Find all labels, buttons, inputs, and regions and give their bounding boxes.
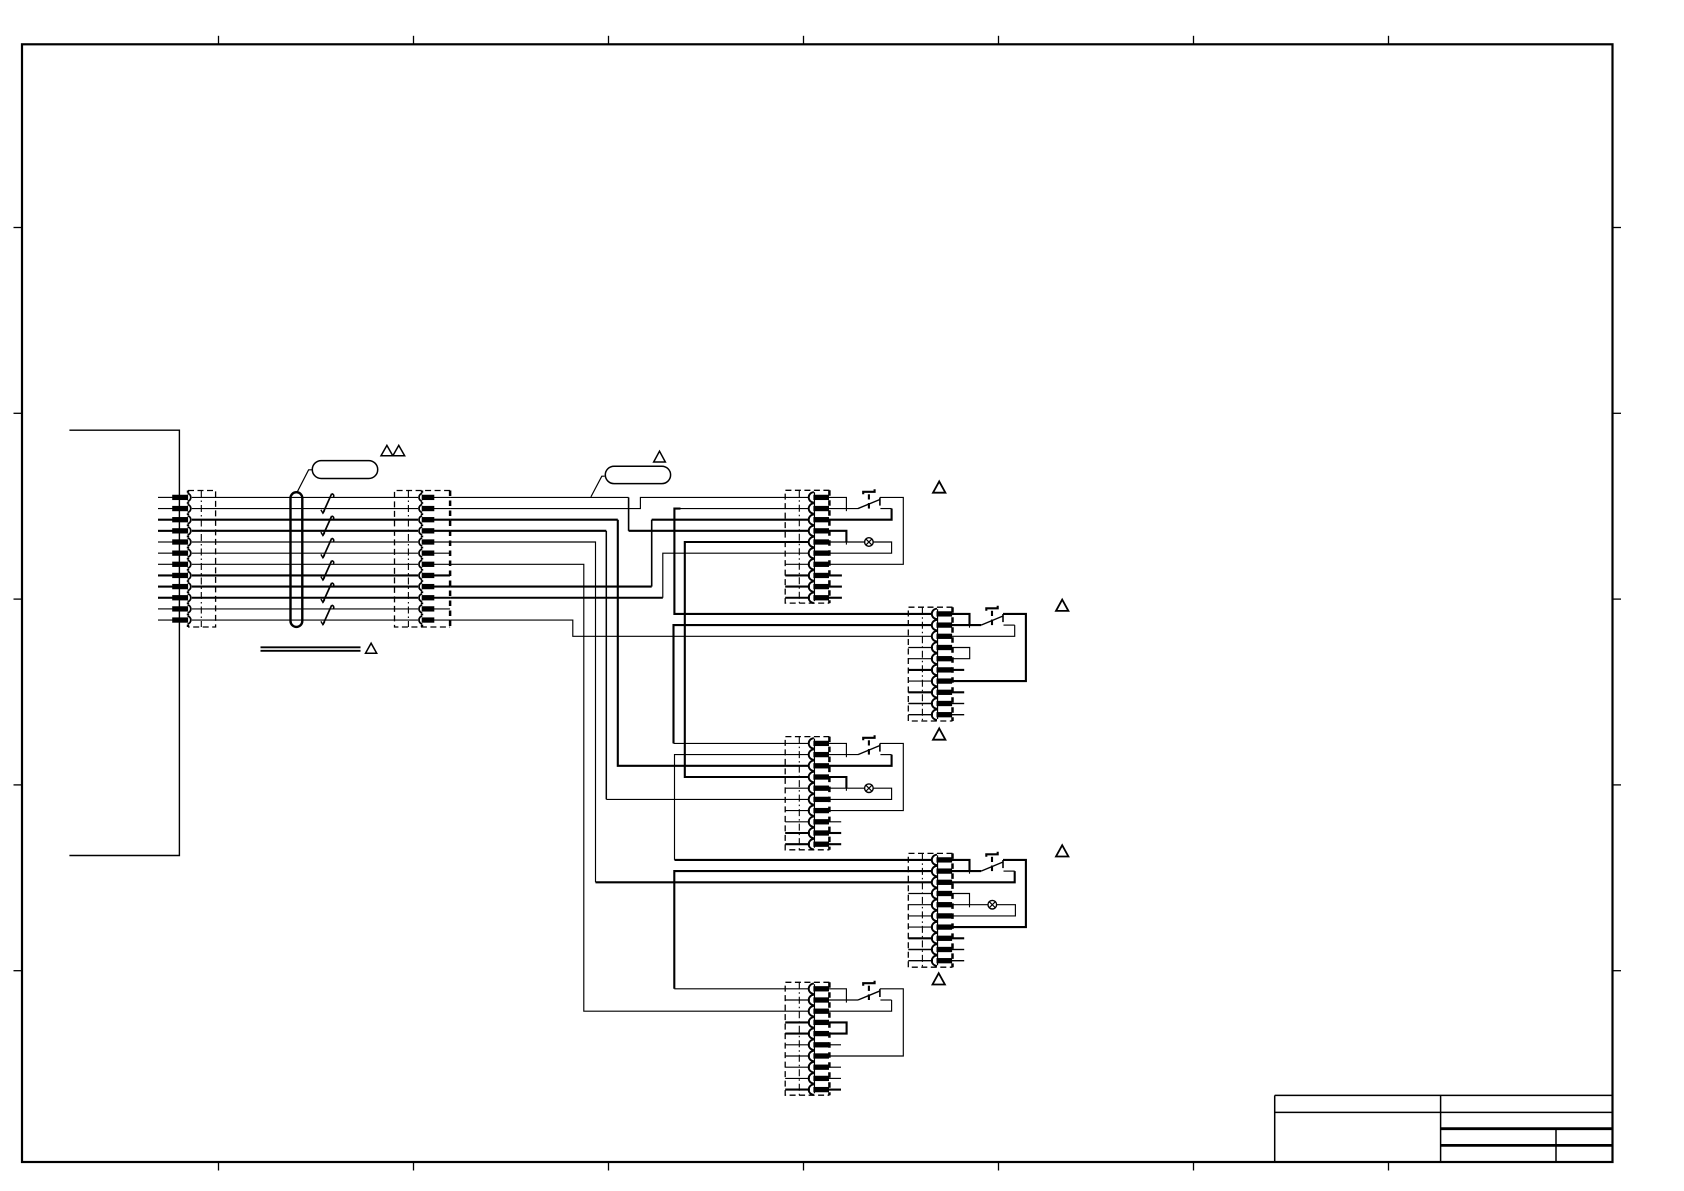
- module E mating line (heavy): [813, 984, 815, 1093]
- connector P2 pin 9 socket bump: [419, 583, 422, 591]
- module D pin 4 crimp: [937, 891, 952, 895]
- connector P1 pin 6 socket bump: [188, 549, 191, 557]
- wire W3 run to module C pin 3: [450, 519, 618, 521]
- module A pin 5 wire to lamp: [829, 541, 865, 543]
- module C junction tick: [845, 788, 847, 791]
- module E pin 1 crimp: [814, 987, 829, 991]
- note triangle module D: [1056, 845, 1068, 856]
- module B switch actuator stem (dashed): [991, 611, 993, 616]
- module B pin 6 capped stub: [952, 669, 965, 671]
- module D pin 7 tail: [908, 926, 933, 928]
- module E switch actuator bar: [863, 981, 874, 986]
- module E pin 10 crimp: [814, 1087, 829, 1091]
- module C pin 2 wire to switch: [829, 754, 859, 756]
- note triangle module C: [933, 728, 945, 739]
- module D switch feed jumper pin1-pin2: [952, 860, 970, 871]
- module E connector housing (dashed): [785, 982, 829, 1095]
- module E pin 6 socket bump: [809, 1040, 814, 1050]
- connector P2 pin 8 crimp: [422, 573, 434, 577]
- note triangle pair near balloon 1: [381, 445, 393, 455]
- module D pin 4 socket bump: [932, 888, 937, 898]
- module B pin 5 crimp: [937, 657, 952, 661]
- module D pin 6 crimp: [937, 914, 952, 918]
- wire pair slash mark 2: [323, 516, 332, 536]
- note triangle module B: [1056, 600, 1068, 611]
- balloon 2 leader line: [591, 476, 605, 497]
- module B pin 10 capped stub: [952, 714, 965, 716]
- module C switch fixed contact: [879, 744, 881, 752]
- module D pin 2 socket bump: [932, 866, 937, 876]
- connector P1 pin 9 crimp: [173, 584, 188, 588]
- module A pin 7 crimp: [814, 562, 829, 566]
- module B pin 4 tail: [908, 647, 933, 649]
- wire W5 run to module D pin 3: [450, 542, 595, 882]
- module A junction tick: [845, 542, 847, 545]
- module B pin 10 socket bump: [932, 710, 937, 720]
- connector P2 pin 12 socket bump: [419, 616, 422, 624]
- module C pin 10 socket bump: [809, 839, 814, 849]
- module B pin 5 tail: [908, 658, 933, 660]
- connector P2 pin 3 socket bump: [419, 516, 422, 524]
- module A pin 3 crimp: [814, 518, 829, 522]
- wire W2 stub from unit to P1 pin 2: [158, 508, 173, 510]
- connector P1 pin 1 crimp: [173, 495, 188, 499]
- module C switch actuator bar: [863, 735, 874, 740]
- module E junction tick: [845, 1000, 847, 1003]
- module D lamp feed jumper pin4-pin5: [952, 894, 970, 905]
- module E pin 4 socket bump: [809, 1017, 814, 1027]
- title block: [1275, 1094, 1613, 1096]
- harness loom tie (capsule): [291, 492, 303, 627]
- wire W9 stub from unit to P1 pin 9: [158, 586, 173, 588]
- module D pin 8 capped stub: [952, 937, 965, 939]
- module C switch output loop to pin 7: [829, 743, 904, 810]
- module A pin 10 capped stub: [829, 597, 842, 599]
- connector P1 pin 6 crimp: [173, 551, 188, 555]
- connector P2 pin 1 socket bump: [419, 493, 422, 501]
- module D pin 9 crimp: [937, 947, 952, 951]
- module B mating line (heavy): [936, 609, 938, 719]
- module B pin 7 tail: [908, 680, 933, 682]
- module D connector cable-side line (heavy dashed): [951, 853, 954, 967]
- module A pin 9 capped stub: [829, 586, 842, 588]
- connector P1 pin 9 socket bump: [188, 583, 191, 591]
- connector P1 pin 7 crimp: [173, 562, 188, 566]
- module B switch feed jumper pin1-pin2: [952, 614, 970, 625]
- module E pin 4 crimp: [814, 1020, 829, 1024]
- module D mating line (heavy): [936, 855, 938, 965]
- module A switch fixed contact: [879, 498, 881, 506]
- module E pin 7 crimp: [814, 1054, 829, 1058]
- module B connector centerline (dash-dot): [921, 607, 923, 721]
- module E pin 3 socket bump: [809, 1006, 814, 1016]
- module D pin 5 wire to lamp: [952, 904, 988, 906]
- module D pin 4 tail: [908, 893, 933, 895]
- module C pin 1 socket bump: [809, 738, 814, 748]
- module D pushbutton switch blade: [981, 862, 1003, 871]
- module B switch fixed contact: [1002, 614, 1004, 622]
- harness wire W2: [192, 508, 418, 510]
- module C mating line (heavy): [813, 739, 815, 848]
- module D pin 9 capped stub: [952, 949, 965, 951]
- module A lamp feed jumper pin4-pin5: [829, 531, 847, 542]
- module C indicator lamp: [865, 784, 874, 793]
- module A pin 8 capped stub: [829, 574, 842, 576]
- wire W2 exit of P2: [434, 508, 450, 510]
- connector P2 pin 4 socket bump: [419, 527, 422, 535]
- wire W12 run to module B pin 3: [450, 620, 933, 636]
- module E pin 3 crimp: [814, 1009, 829, 1013]
- module A pin 10 socket bump: [809, 593, 814, 603]
- module C pin 5 wire to lamp: [829, 787, 865, 789]
- module E pin 1 feed segment (thin): [674, 988, 810, 990]
- connector P2 pin 5 crimp: [422, 540, 434, 544]
- wire pair slash mark 3: [323, 538, 332, 558]
- connector P2 pin 4 crimp: [422, 529, 434, 533]
- connector P2 mating line (heavy, between pins): [421, 491, 423, 493]
- module E pin 2 crimp: [814, 998, 829, 1002]
- module E pin 2 socket bump: [809, 995, 814, 1005]
- wire W5 stub from unit to P1 pin 5: [158, 541, 173, 543]
- module E pin 6 capped stub: [829, 1044, 842, 1046]
- note triangle at double line: [366, 643, 377, 653]
- harness wire W5: [192, 541, 418, 543]
- module A pin 4 crimp: [814, 529, 829, 533]
- module E pin4-pin5 jumper loop: [829, 1022, 847, 1033]
- module D pin 7 crimp: [937, 925, 952, 929]
- module A pin 9 tail: [785, 586, 810, 588]
- wire W11 stub from unit to P1 pin 11: [158, 608, 173, 610]
- module B pin 8 tail: [908, 691, 933, 693]
- note triangle module E: [933, 973, 945, 984]
- module A lamp return loop to pin 6: [829, 542, 892, 553]
- module B switch output loop to pin 7: [952, 614, 1026, 681]
- module D pin 10 capped stub: [952, 960, 965, 962]
- module A connector centerline (dash-dot): [798, 490, 800, 603]
- wire W8 exit of P2: [434, 574, 450, 576]
- module E pin 9 capped stub: [829, 1077, 842, 1079]
- connector J1 housing (dashed): [188, 491, 216, 628]
- wire W7 exit of P2: [434, 563, 450, 565]
- module C pin 6 crimp: [814, 797, 829, 801]
- module B switch actuator bar: [986, 606, 997, 611]
- module B connector housing (dashed): [908, 607, 952, 721]
- note triangle near balloon 2: [654, 451, 666, 462]
- module B pin 4 socket bump: [932, 642, 937, 652]
- wire W11 exit of P2: [434, 608, 450, 610]
- module B pin 7 crimp: [937, 679, 952, 683]
- wire W9 (thick): [450, 586, 652, 588]
- module D switch output loop to pin 7: [952, 860, 1026, 927]
- module C lamp return loop to pin 6: [829, 788, 892, 799]
- module A pin 8 tail: [785, 574, 810, 576]
- callout balloon 2 (empty capsule): [605, 466, 670, 483]
- wire W12 exit of P2: [434, 619, 450, 621]
- module B pin 3 socket bump: [932, 631, 937, 641]
- module C connector housing (dashed): [785, 737, 829, 850]
- connector J1 centerline (dash-dot): [200, 491, 202, 628]
- wire W4 stub from unit to P1 pin 4: [158, 530, 173, 532]
- connector P2 pin 7 crimp: [422, 562, 434, 566]
- module A pin 8 socket bump: [809, 570, 814, 580]
- connector P1 pin 3 socket bump: [188, 516, 191, 524]
- wire W5 exit of P2: [434, 541, 450, 543]
- module C pin 5 socket bump: [809, 783, 814, 793]
- connector P1 pin 11 crimp: [173, 607, 188, 611]
- harness wire W9: [192, 586, 418, 588]
- module C pin 4 crimp: [814, 775, 829, 779]
- module D pin 8 tail: [908, 937, 933, 939]
- module B pin 6 tail: [908, 669, 933, 671]
- module E pin 9 socket bump: [809, 1073, 814, 1083]
- wire W4 exit of P2: [434, 530, 450, 532]
- module A mating line (heavy): [813, 492, 815, 601]
- harness wire W7: [192, 563, 418, 565]
- harness wire W12: [192, 619, 418, 621]
- module A pin 2 wire to switch: [829, 508, 859, 510]
- module C switch actuator stem (dashed): [868, 740, 870, 745]
- module A pin 2 daisy feed down to module B pin 1: [674, 509, 933, 614]
- module D pin 9 socket bump: [932, 944, 937, 954]
- module B pin 10 tail: [908, 714, 933, 716]
- wire W10 (thick): [450, 597, 663, 599]
- module C pin 9 socket bump: [809, 828, 814, 838]
- wire W3 exit of P2: [434, 519, 450, 521]
- wire W6 stub from unit to P1 pin 6: [158, 552, 173, 554]
- harness wire W10: [192, 597, 418, 599]
- module B pin 8 capped stub: [952, 691, 965, 693]
- connector P2 cable-side line (heavy dashed): [449, 491, 452, 628]
- module E pin 7 tail: [785, 1055, 810, 1057]
- connector P2 pin 1 crimp: [422, 495, 434, 499]
- connector P1 pin 5 crimp: [173, 540, 188, 544]
- module D pin 5 crimp: [937, 903, 952, 907]
- module C pin 8 capped stub: [829, 821, 842, 823]
- module A pin 6 lamp return to wire W10: [663, 553, 810, 598]
- module D pin 1 crimp: [937, 858, 952, 862]
- module B pin 9 crimp: [937, 701, 952, 705]
- wire pair slash mark 4: [323, 561, 332, 581]
- wire W1 feed into module A pin 4 (thick): [629, 530, 810, 532]
- module D pin 2 wire to switch: [952, 870, 982, 872]
- module B pin 4 crimp: [937, 645, 952, 649]
- module E pin 2 tail: [785, 999, 810, 1001]
- module C pin 2 socket bump: [809, 749, 814, 759]
- module D pin 10 crimp: [937, 959, 952, 963]
- module E pushbutton switch blade: [858, 991, 880, 1000]
- module E connector cable-side line (heavy dashed): [828, 982, 831, 1095]
- module D pin 5 socket bump: [932, 900, 937, 910]
- module B pin4-pin5 jumper loop: [952, 648, 970, 659]
- module D junction tick: [969, 905, 971, 908]
- harness wire W4: [192, 530, 418, 532]
- connector P1 pin 10 crimp: [173, 596, 188, 600]
- module E switch feed jumper pin1-pin2: [829, 989, 847, 1000]
- module C pin 9 crimp: [814, 831, 829, 835]
- shield/twisted symbol double line: [261, 646, 361, 648]
- module B pin 6 socket bump: [932, 665, 937, 675]
- harness wire W8: [192, 574, 418, 576]
- wire W12 stub from unit to P1 pin 12: [158, 619, 173, 621]
- module A pin 1 crimp: [814, 495, 829, 499]
- module A indicator lamp: [865, 538, 874, 547]
- module A switch actuator bar: [863, 489, 874, 494]
- module B pin 6 crimp: [937, 668, 952, 672]
- module C pin 9 tail: [785, 832, 810, 834]
- module C pin 10 capped stub: [829, 843, 842, 845]
- module D pin 1 socket bump: [932, 855, 937, 865]
- module A pin 7 tail: [785, 563, 810, 565]
- connector P1 pin 2 crimp: [173, 506, 188, 510]
- module D pin 3 socket bump: [932, 877, 937, 887]
- module A pin 7 socket bump: [809, 559, 814, 569]
- module D lamp return loop to pin 6: [952, 905, 1016, 916]
- module E switch fixed contact: [879, 989, 881, 997]
- module B switch output run to pin 3: [1004, 624, 1015, 626]
- module C pin 3 socket bump: [809, 761, 814, 771]
- connector P2 pin 2 socket bump: [419, 505, 422, 513]
- module E pin 5 crimp: [814, 1031, 829, 1035]
- connector P1 pin 4 socket bump: [188, 527, 191, 535]
- connector P1 pin 8 socket bump: [188, 571, 191, 579]
- connector P2 pin 2 crimp: [422, 506, 434, 510]
- left unit block outline: [69, 430, 179, 855]
- connector J2 housing (dashed): [395, 491, 451, 628]
- module C connector centerline (dash-dot): [798, 737, 800, 850]
- module C pin 9 capped stub: [829, 832, 842, 834]
- module C pin 1 feed segment (thin): [674, 742, 811, 744]
- module C pin 7 crimp: [814, 808, 829, 812]
- module A switch feed jumper pin1-pin2: [829, 497, 847, 508]
- module C pin 1 crimp: [814, 741, 829, 745]
- wire W1 stub from unit to P1 pin 1: [158, 496, 173, 498]
- module A pin 5 lamp chain to module C pin 4: [685, 542, 810, 777]
- module A pin 6 socket bump: [809, 548, 814, 558]
- module C connector cable-side line (heavy dashed): [828, 737, 831, 850]
- module D connector housing (dashed): [908, 853, 952, 967]
- module B pin 9 tail: [908, 703, 933, 705]
- connector P2 pin 10 socket bump: [419, 594, 422, 602]
- connector P2 pin 9 crimp: [422, 584, 434, 588]
- module E pin 1 socket bump: [809, 984, 814, 994]
- connector P2 pin 7 socket bump: [419, 560, 422, 568]
- sheet zone tick marks top/bottom: [218, 36, 220, 45]
- harness wire W6: [192, 552, 418, 554]
- module A pin 1 socket bump: [809, 492, 814, 502]
- module B pin 1 socket bump: [932, 609, 937, 619]
- module C pin 2 daisy feed down to module D pin 1: [675, 755, 811, 860]
- connector P1 pin 10 socket bump: [188, 594, 191, 602]
- module E pin 6 crimp: [814, 1043, 829, 1047]
- module D pin 8 socket bump: [932, 933, 937, 943]
- wire W2 run to module A pin 1: [450, 497, 810, 508]
- wire W3 stub from unit to P1 pin 3: [158, 519, 173, 521]
- connector P1 pin 1 socket bump: [188, 493, 191, 501]
- module D pin 3 crimp: [937, 880, 952, 884]
- module B pin 5 socket bump: [932, 654, 937, 664]
- module C pin 7 socket bump: [809, 805, 814, 815]
- module A pin 4 socket bump: [809, 526, 814, 536]
- module B pin 9 socket bump: [932, 698, 937, 708]
- module D indicator lamp: [988, 900, 997, 909]
- wire pair slash mark 1: [323, 494, 332, 514]
- connector P2 pin 11 crimp: [422, 607, 434, 611]
- module A pin 2 socket bump: [809, 503, 814, 513]
- module C switch output run to pin 3: [880, 754, 891, 756]
- module A switch output loop to pin 7: [829, 497, 904, 564]
- module E pin 10 socket bump: [809, 1084, 814, 1094]
- wire W6 exit of P2: [434, 552, 450, 554]
- harness wire W3: [192, 519, 418, 521]
- connector P2 pin 6 socket bump: [419, 549, 422, 557]
- connector P1 pin 8 crimp: [173, 573, 188, 577]
- module A pin 2 crimp: [814, 506, 829, 510]
- module E pin 9 crimp: [814, 1076, 829, 1080]
- module B pin 1 crimp: [937, 612, 952, 616]
- module D connector centerline (dash-dot): [921, 853, 923, 967]
- wire W10 stub from unit to P1 pin 10: [158, 597, 173, 599]
- module B pin 3 crimp: [937, 634, 952, 638]
- module A pin 8 crimp: [814, 573, 829, 577]
- sheet zone tick marks left/right: [14, 227, 23, 229]
- module A pin 3 row segment (thick): [652, 519, 810, 521]
- module A pushbutton switch blade: [858, 500, 880, 509]
- module E pin 10 capped stub: [829, 1089, 842, 1091]
- connector P2 pin 10 crimp: [422, 596, 434, 600]
- module D pin 2 daisy feed down to module E pin 1: [674, 871, 933, 989]
- wire W7 run to module E pin 3: [450, 564, 810, 1011]
- module D switch actuator bar: [986, 852, 997, 857]
- balloon 1 leader line: [297, 470, 312, 492]
- module B junction tick: [969, 625, 971, 628]
- module E pin 4 tail: [785, 1021, 810, 1023]
- module B pin 2 daisy feed down to module C pin 1: [674, 625, 934, 743]
- module E pin 2 wire to switch: [829, 999, 859, 1001]
- module A connector cable-side line (heavy dashed): [828, 490, 831, 603]
- module A switch actuator stem (dashed): [868, 494, 870, 499]
- module A connector housing (dashed): [785, 490, 829, 603]
- module A pin 9 crimp: [814, 584, 829, 588]
- connector P2 pin 12 crimp: [422, 618, 434, 622]
- module E pin 8 tail: [785, 1066, 810, 1068]
- connector P1 pin 3 crimp: [173, 518, 188, 522]
- module E pin 6 tail: [785, 1044, 810, 1046]
- module D pin 5 tail: [908, 904, 933, 906]
- connector P1 pin 12 socket bump: [188, 616, 191, 624]
- connector P2 pin 8 socket bump: [419, 571, 422, 579]
- wire W4 run to module C pin 6: [450, 530, 606, 532]
- module C pin 5 crimp: [814, 786, 829, 790]
- connector P1 mating line (heavy, between pins): [187, 491, 189, 493]
- connector P1 pin 5 socket bump: [188, 538, 191, 546]
- module E pin 9 tail: [785, 1077, 810, 1079]
- module E pin 5 socket bump: [809, 1028, 814, 1038]
- module C pin 2 crimp: [814, 752, 829, 756]
- module C pushbutton switch blade: [858, 746, 880, 755]
- connector P2 pin 3 crimp: [422, 518, 434, 522]
- module C lamp feed jumper pin4-pin5: [829, 777, 847, 788]
- module D pin 10 socket bump: [932, 956, 937, 966]
- connector P2 pin 5 socket bump: [419, 538, 422, 546]
- module C pin 8 socket bump: [809, 817, 814, 827]
- module B pin 2 crimp: [937, 623, 952, 627]
- connector P1 pin 4 crimp: [173, 529, 188, 533]
- module A pin 6 crimp: [814, 551, 829, 555]
- module D switch output run to pin 3: [1004, 870, 1015, 872]
- module D pin 1 feed segment (thick): [675, 859, 934, 861]
- module D pin 8 crimp: [937, 936, 952, 940]
- module D junction tick: [969, 871, 971, 874]
